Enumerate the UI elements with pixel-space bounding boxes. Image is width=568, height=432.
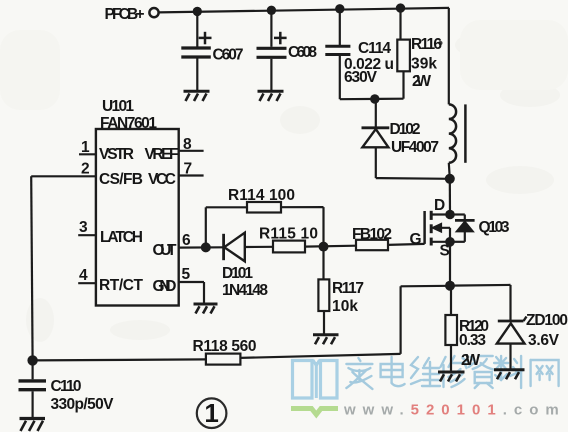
svg-text:10k: 10k bbox=[332, 298, 358, 315]
svg-text:8: 8 bbox=[183, 136, 192, 153]
svg-text:D: D bbox=[434, 197, 445, 214]
svg-text:ZD100: ZD100 bbox=[526, 312, 568, 329]
svg-text:C114: C114 bbox=[358, 40, 391, 57]
svg-text:UF4007: UF4007 bbox=[391, 139, 439, 156]
svg-text:7: 7 bbox=[184, 161, 193, 178]
svg-text:D101: D101 bbox=[222, 265, 253, 282]
svg-text:R118 560: R118 560 bbox=[193, 338, 257, 355]
svg-text:G: G bbox=[410, 231, 422, 248]
svg-text:RT/CT: RT/CT bbox=[99, 277, 144, 294]
svg-text:C110: C110 bbox=[51, 378, 82, 395]
svg-text:Q103: Q103 bbox=[479, 219, 510, 236]
svg-text:R117: R117 bbox=[332, 280, 364, 297]
svg-text:D102: D102 bbox=[390, 121, 421, 138]
svg-text:OUT: OUT bbox=[153, 242, 178, 259]
svg-text:330p/50V: 330p/50V bbox=[51, 396, 115, 413]
svg-text:3.6V: 3.6V bbox=[528, 332, 560, 349]
svg-text:2: 2 bbox=[81, 160, 90, 177]
svg-text:630V: 630V bbox=[344, 69, 378, 86]
svg-text:PFCB+: PFCB+ bbox=[105, 6, 145, 23]
svg-text:VSTR: VSTR bbox=[99, 146, 134, 163]
svg-text:1: 1 bbox=[204, 398, 218, 428]
svg-text:CS/FB: CS/FB bbox=[99, 171, 143, 188]
svg-text:FB102: FB102 bbox=[352, 226, 392, 243]
svg-text:5: 5 bbox=[182, 266, 191, 283]
svg-text:2W: 2W bbox=[461, 352, 480, 369]
svg-text:6: 6 bbox=[182, 232, 191, 249]
svg-text:R114 100: R114 100 bbox=[228, 187, 295, 204]
svg-text:4: 4 bbox=[79, 267, 88, 284]
svg-text:GND: GND bbox=[153, 278, 177, 295]
svg-text:C608: C608 bbox=[288, 44, 317, 61]
svg-text:C607: C607 bbox=[213, 47, 244, 64]
svg-text:39k: 39k bbox=[411, 56, 437, 73]
svg-text:VCC: VCC bbox=[148, 171, 176, 188]
svg-text:VREF: VREF bbox=[145, 146, 179, 163]
svg-text:2W: 2W bbox=[412, 73, 431, 90]
svg-text:www.520101.com: www.520101.com bbox=[343, 402, 566, 419]
svg-text:1: 1 bbox=[81, 139, 90, 156]
svg-text:R116: R116 bbox=[411, 36, 442, 53]
svg-text:FAN7601: FAN7601 bbox=[100, 115, 157, 132]
svg-text:S: S bbox=[440, 242, 450, 259]
svg-text:1N4148: 1N4148 bbox=[222, 282, 268, 299]
svg-text:0.33: 0.33 bbox=[459, 332, 486, 349]
svg-text:R115 10: R115 10 bbox=[259, 225, 318, 242]
svg-text:3: 3 bbox=[79, 219, 88, 236]
svg-text:LATCH: LATCH bbox=[100, 229, 143, 246]
svg-text:U101: U101 bbox=[102, 98, 134, 115]
